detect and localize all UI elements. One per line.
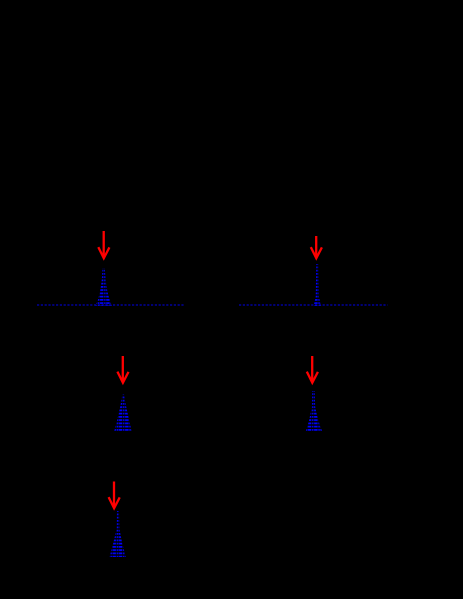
arrow A5 (red, row 3) [109, 482, 120, 509]
baseline left (dashed blue spectrum baseline, row 1) [37, 304, 185, 306]
peak P4 (row 2 right, hatched blue) [306, 391, 323, 432]
arrow A3 (red, row 2 left) [117, 356, 128, 383]
baseline right (dashed blue spectrum baseline, row 1) [239, 304, 388, 306]
peak P1 broad (row 1 left, hatched blue) [96, 268, 113, 306]
peak P2 sharp (row 1 right, hatched blue) [314, 264, 322, 306]
arrow A1 (red, row 1 left) [98, 231, 109, 258]
arrow A4 (red, row 2 right) [307, 356, 318, 383]
peak P5 (row 3, hatched blue) [110, 511, 126, 557]
peak P3 (row 2 left, hatched blue triangle) [114, 395, 132, 433]
arrow A2 (red, row 1 right) [311, 236, 322, 258]
